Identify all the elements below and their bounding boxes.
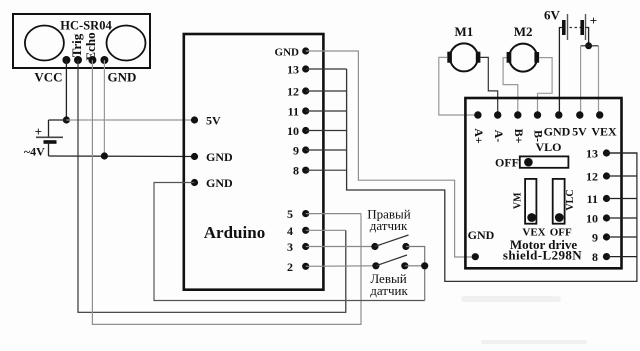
jumper VLO slider (520, 156, 569, 167)
pin 4 dot (302, 227, 309, 234)
svg-text:12: 12 (586, 170, 598, 184)
motor M1 left tab (447, 52, 452, 63)
wire S2 right to junction (405, 265, 425, 267)
wire to VEX pin (598, 46, 600, 115)
svg-text:9: 9 (592, 231, 598, 245)
svg-text:4: 4 (287, 224, 293, 238)
wire M2 left to B+ (503, 58, 518, 115)
pin 13 shield dot (603, 149, 610, 156)
pin Echo dot (88, 56, 96, 64)
jumper VM knob (527, 213, 536, 222)
wire pin10 stub (306, 130, 347, 132)
svg-text:5: 5 (287, 207, 293, 221)
pin 2 dot (302, 263, 309, 270)
pin B+ dot (514, 111, 521, 118)
wire pin2 to switch S2 (306, 265, 376, 268)
svg-text:Echo: Echo (83, 32, 98, 60)
svg-text:GND: GND (544, 125, 571, 139)
wire bus Arduino to shield (347, 69, 637, 281)
motor M1 right tab (476, 52, 481, 63)
svg-text:A+: A+ (472, 128, 486, 144)
battery B2 dashed link (570, 27, 581, 29)
svg-text:VM: VM (512, 192, 523, 209)
svg-text:Arduino: Arduino (204, 223, 265, 242)
wire pin8 stub (306, 169, 347, 171)
pin GND dot (100, 56, 108, 64)
watermark smudge 1 (461, 296, 561, 302)
wire GND net Arduino to shield (306, 51, 476, 257)
svg-text:shield-L298N: shield-L298N (503, 248, 582, 263)
wire pin4 net (306, 229, 346, 231)
motor M2 left tab (507, 52, 512, 63)
pin 10 shield dot (603, 214, 610, 221)
pin 13 dot (302, 65, 309, 72)
svg-text:3: 3 (287, 240, 293, 254)
svg-text:5V: 5V (206, 114, 221, 128)
pin 12 shield dot (603, 172, 610, 179)
pin 11 shield dot (603, 195, 610, 202)
svg-text:2: 2 (287, 260, 293, 274)
node B2 positive junction (585, 42, 592, 49)
wire VCC vertical (65, 60, 67, 120)
node GND shield dot (472, 253, 479, 260)
pin GND right dot (302, 47, 309, 54)
motor M2 body (509, 44, 537, 72)
pin 5 dot (302, 210, 309, 217)
wire junction to Arduino 5V (66, 119, 194, 121)
svg-text:Trig: Trig (69, 33, 84, 57)
wire shield pin11 stub (607, 198, 637, 200)
switch S2 (left sensor) (372, 255, 408, 269)
jumper VM slider (525, 179, 536, 224)
pin 3 dot (302, 243, 309, 250)
svg-text:12: 12 (287, 85, 299, 99)
svg-text:A-: A- (492, 130, 506, 143)
pin A- dot (494, 111, 501, 118)
svg-text:13: 13 (287, 63, 299, 77)
svg-text:OFF: OFF (495, 156, 519, 170)
svg-text:+: + (590, 13, 597, 28)
svg-text:VCC: VCC (34, 70, 62, 85)
pin VEX top dot (596, 111, 603, 118)
battery B2 cell1 negative plate (562, 20, 566, 35)
battery B1 negative plate (44, 140, 57, 144)
wire pin11 stub (306, 110, 347, 112)
battery B1 positive plate (36, 136, 63, 138)
pin 8 dot (302, 167, 309, 174)
svg-text:HC-SR04: HC-SR04 (60, 19, 112, 33)
svg-text:GND: GND (468, 228, 495, 242)
pin 11 dot (302, 107, 309, 114)
svg-text:датчик: датчик (370, 218, 408, 233)
wire B2 negative to shield GND (559, 28, 562, 116)
svg-text:VEX: VEX (591, 125, 617, 139)
motor M2 right tab (534, 52, 539, 63)
wire pin9 stub (306, 149, 347, 151)
wire pin12 stub (306, 90, 347, 92)
switch S1 (right sensor) (371, 235, 409, 250)
wire S1 right to junction (406, 247, 425, 301)
svg-text:M2: M2 (514, 24, 533, 39)
Arduino U1 body (184, 34, 324, 290)
battery B2 cell2 negative plate (580, 20, 584, 35)
svg-text:11: 11 (288, 105, 299, 119)
wire pin13 stub (306, 68, 347, 70)
pin 8 shield dot (603, 253, 610, 260)
wire to 5V pin (580, 46, 582, 115)
pin Trig dot (74, 56, 82, 64)
pin GND2 dot (191, 179, 198, 186)
pin 9 shield dot (603, 233, 610, 240)
wire pin5 net (306, 213, 361, 215)
jumper VLC slider (553, 179, 565, 224)
pin 5V dot (191, 116, 198, 123)
shield U2 body (L298N) (465, 98, 621, 268)
svg-text:датчик: датчик (370, 283, 408, 298)
svg-text:13: 13 (586, 147, 598, 161)
motor M1 body (450, 43, 478, 71)
wire Echo net (92, 60, 361, 324)
wire B2 positive down (586, 28, 589, 46)
battery B1 positive lead (48, 120, 50, 137)
wire M1 left to A+ (439, 57, 478, 115)
svg-text:~4V: ~4V (24, 144, 45, 158)
pin VCC dot (62, 56, 70, 64)
battery B2 cell2 positive plate (585, 14, 587, 40)
wire Trig net (78, 60, 346, 312)
svg-text:B+: B+ (512, 129, 526, 144)
node VCC junction (63, 116, 70, 123)
svg-text:GND: GND (108, 70, 137, 85)
svg-text:10: 10 (287, 124, 299, 138)
wire GND2 net to switches (154, 183, 425, 301)
svg-text:11: 11 (587, 192, 598, 206)
sensor HC-SR04 body (13, 14, 150, 68)
node sensor GND junction (101, 152, 108, 159)
wire shield pin9 stub (607, 236, 637, 238)
pin 10 dot (302, 127, 309, 134)
svg-text:VLC: VLC (565, 189, 576, 210)
battery B2 cell1 positive plate (567, 14, 569, 40)
wire sensor GND vertical (103, 60, 105, 156)
transducer R (right circle) (107, 26, 146, 61)
svg-text:5V: 5V (572, 125, 587, 139)
pin 12 dot (302, 87, 309, 94)
wire shield pin12 stub (607, 175, 637, 177)
pin GND top dot (555, 111, 562, 118)
svg-text:6V: 6V (544, 8, 561, 23)
svg-text:8: 8 (293, 164, 299, 178)
battery B1 negative lead (48, 142, 50, 156)
svg-text:VLO: VLO (535, 140, 561, 154)
svg-text:9: 9 (293, 144, 299, 158)
pin B- dot (534, 111, 541, 118)
wire M2 right to B- (538, 58, 553, 115)
wire shield pin13 stub (607, 152, 637, 154)
pin GND1 dot (191, 153, 198, 160)
wire M1 right to A- (480, 57, 497, 115)
svg-text:GND: GND (206, 176, 233, 190)
watermark smudge 2 (481, 340, 587, 344)
pin A+ dot (474, 111, 481, 118)
pin 5V top dot (576, 111, 583, 118)
svg-text:GND: GND (206, 150, 233, 164)
pin 9 dot (302, 146, 309, 153)
jumper VLC knob (555, 213, 564, 222)
svg-text:M1: M1 (455, 24, 474, 39)
transducer T (left circle) (25, 26, 64, 61)
wire battery- to Arduino GND (49, 155, 195, 158)
wire junction bar (581, 45, 599, 47)
jumper VLO knob (524, 158, 533, 167)
svg-text:8: 8 (592, 250, 598, 264)
svg-text:GND: GND (275, 47, 300, 59)
wire battery+ to junction (49, 119, 67, 121)
node switches junction (421, 262, 428, 269)
svg-text:10: 10 (586, 212, 598, 226)
wire shield pin10 stub (607, 217, 637, 219)
wire pin3 to switch S1 (306, 246, 375, 248)
wire shield pin8 stub (607, 256, 637, 258)
